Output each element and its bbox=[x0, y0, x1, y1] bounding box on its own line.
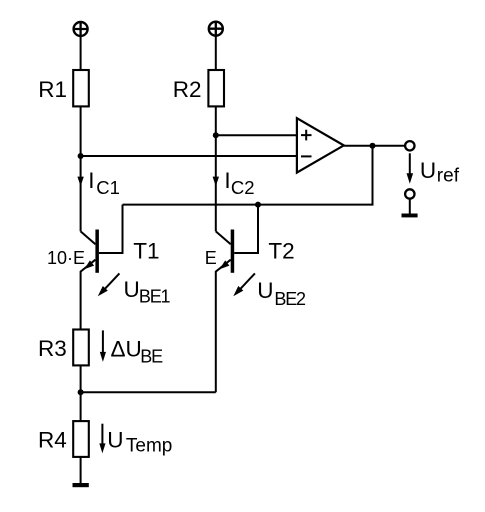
transistor T1 emitter lead bbox=[81, 260, 96, 330]
wire supply to R1 bbox=[80, 36, 82, 70]
svg-text:U: U bbox=[257, 278, 273, 303]
supply terminal + (left, above R1) bbox=[74, 22, 88, 36]
voltage arrow dU_BE bbox=[102, 330, 104, 353]
svg-text:BE: BE bbox=[140, 346, 163, 366]
current arrow I_C2 bbox=[213, 177, 219, 187]
current arrow I_C1 bbox=[77, 177, 83, 187]
svg-text:I: I bbox=[224, 168, 230, 193]
svg-text:U: U bbox=[107, 427, 123, 452]
svg-text:ref: ref bbox=[437, 166, 460, 187]
node: T2 base junction on feedback line bbox=[255, 202, 261, 208]
svg-text:10·E: 10·E bbox=[47, 248, 85, 268]
svg-text:E: E bbox=[205, 248, 217, 268]
svg-text:C2: C2 bbox=[231, 177, 255, 198]
resistor R3 bbox=[73, 330, 89, 366]
voltage arrow U_ref bbox=[409, 153, 411, 174]
wire junction to T2 emitter bbox=[81, 391, 216, 393]
resistor R1 bbox=[73, 70, 89, 106]
ground (left) bbox=[73, 483, 89, 487]
node: R3/R4 junction bbox=[78, 389, 84, 395]
voltage arrow U_BE1 bbox=[104, 273, 119, 289]
svg-text:Temp: Temp bbox=[126, 436, 172, 457]
wire node to op-amp inverting input bbox=[81, 155, 297, 157]
svg-text:U: U bbox=[124, 277, 140, 302]
op-amp minus input sign bbox=[301, 155, 312, 157]
op-amp U1 triangle bbox=[297, 118, 344, 172]
wire T2 base bbox=[234, 205, 258, 253]
op-amp plus input sign bbox=[301, 130, 312, 141]
voltage arrow U_BE2 bbox=[240, 273, 255, 289]
wire op-amp output bbox=[344, 145, 405, 147]
wire R1 to T1 collector bbox=[80, 106, 82, 231]
wire R4 to ground bbox=[80, 457, 82, 484]
svg-text:R4: R4 bbox=[38, 428, 67, 453]
transistor T2 collector lead bbox=[216, 231, 231, 244]
transistor T1 emitter arrow bbox=[84, 260, 94, 269]
output terminal (top) bbox=[405, 141, 414, 150]
svg-text:T1: T1 bbox=[133, 239, 159, 264]
transistor T2 emitter lead bbox=[216, 260, 231, 393]
wire T1 base bbox=[99, 205, 123, 253]
transistor T1 base bar bbox=[95, 230, 99, 273]
svg-text:C1: C1 bbox=[96, 177, 120, 198]
supply terminal + (right, above R2) bbox=[209, 22, 223, 36]
wire feedback output to bases bbox=[123, 146, 373, 205]
node: R2 / non-inverting input junction bbox=[213, 132, 219, 138]
svg-text:BE2: BE2 bbox=[274, 289, 306, 309]
svg-text:T2: T2 bbox=[268, 239, 294, 264]
voltage arrow U_Temp bbox=[101, 424, 103, 444]
wire node to op-amp non-inverting input bbox=[216, 134, 297, 136]
svg-text:U: U bbox=[420, 158, 436, 183]
svg-text:I: I bbox=[88, 168, 94, 193]
svg-text:R3: R3 bbox=[38, 336, 67, 361]
transistor T2 emitter arrow bbox=[220, 260, 230, 269]
svg-text:BE1: BE1 bbox=[139, 287, 171, 307]
ground (right) bbox=[402, 214, 418, 218]
wire terminal to ground bbox=[409, 200, 411, 214]
svg-text:ΔU: ΔU bbox=[111, 336, 142, 361]
resistor R2 bbox=[208, 70, 224, 106]
resistor R4 bbox=[73, 421, 89, 457]
output terminal (bottom) bbox=[405, 189, 414, 198]
node: output junction bbox=[370, 143, 376, 149]
transistor T2 base bar bbox=[231, 230, 235, 273]
wire R3 to R4 bbox=[80, 365, 82, 421]
svg-text:R1: R1 bbox=[38, 77, 67, 102]
transistor T1 collector lead bbox=[81, 231, 96, 244]
node: R1 / inverting input junction bbox=[78, 153, 84, 159]
wire supply to R2 bbox=[215, 36, 217, 70]
wire R2 to T2 collector bbox=[215, 106, 217, 231]
svg-text:R2: R2 bbox=[173, 77, 202, 102]
